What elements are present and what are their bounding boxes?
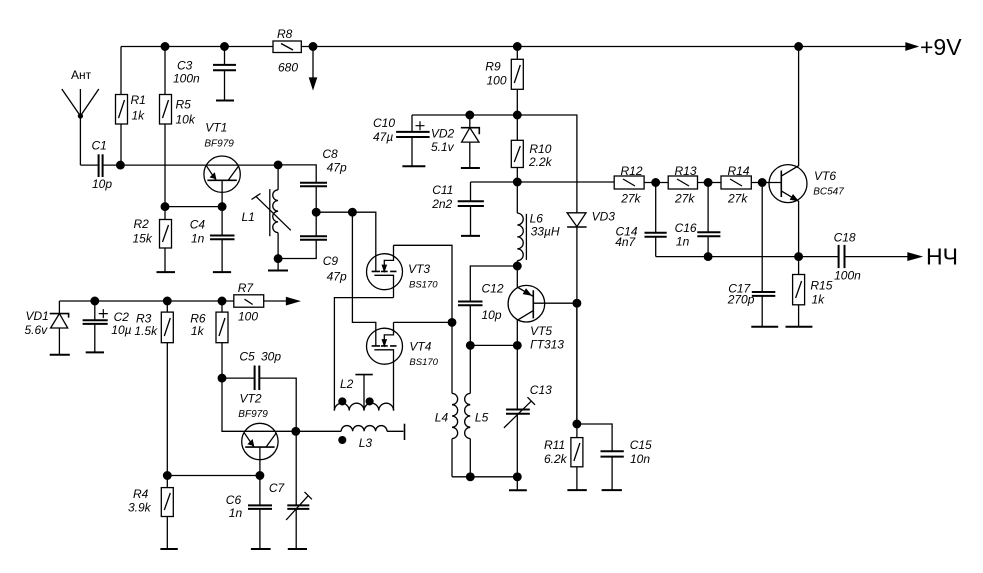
- svg-text:+9V: +9V: [920, 34, 962, 60]
- wire VT3 source to L2 left: [334, 298, 393, 411]
- wire +9V rail left segment: [121, 46, 273, 48]
- svg-text:R2: R2: [134, 217, 150, 231]
- svg-text:1k: 1k: [191, 324, 205, 338]
- node VT6 emitter R15 junction: [795, 253, 803, 261]
- node R6 top junction: [218, 297, 226, 305]
- ground below C17: [751, 326, 778, 328]
- svg-text:1n: 1n: [229, 506, 243, 520]
- wire R6 node to VT2 base: [222, 378, 296, 431]
- svg-text:BF979: BF979: [204, 139, 234, 150]
- transistor VT5 ГТ313: [508, 266, 564, 352]
- svg-text:C18: C18: [834, 231, 856, 245]
- capacitor C10 electrolytic: [373, 115, 430, 166]
- svg-text:10µ: 10µ: [111, 323, 131, 337]
- svg-text:6.2k: 6.2k: [544, 452, 568, 466]
- node R11 C15 junction: [573, 420, 581, 428]
- capacitor C15: [577, 424, 652, 489]
- capacitor C6: [226, 476, 272, 549]
- svg-text:R8: R8: [277, 27, 293, 41]
- svg-text:L6: L6: [530, 212, 544, 226]
- resistor R12: [614, 164, 644, 205]
- wire gate node down to L4: [451, 322, 453, 393]
- svg-text:5.1v: 5.1v: [431, 140, 455, 154]
- wire +9V rail right segment: [301, 46, 917, 48]
- transformer L2: [334, 375, 393, 411]
- node L1 bottom junction: [274, 255, 282, 263]
- svg-text:C9: C9: [323, 254, 339, 268]
- svg-text:27k: 27k: [674, 192, 695, 206]
- ground below C6: [251, 548, 271, 550]
- svg-text:100n: 100n: [834, 269, 861, 283]
- svg-text:L1: L1: [242, 210, 255, 224]
- mosfet VT4 BS170: [367, 322, 439, 410]
- wire R14 to VT6 base: [751, 182, 781, 184]
- svg-text:1n: 1n: [676, 235, 690, 249]
- svg-text:5.6v: 5.6v: [25, 323, 49, 337]
- ground below R15: [786, 326, 813, 328]
- svg-text:680: 680: [278, 61, 298, 75]
- node C2 junction: [91, 297, 99, 305]
- svg-text:10n: 10n: [630, 452, 650, 466]
- node VT5 emitter L5 junction: [514, 342, 522, 350]
- capacitor C14: [615, 183, 667, 257]
- capacitor C12: [458, 281, 504, 345]
- capacitor C3: [173, 47, 236, 100]
- node rail R5 junction: [161, 43, 169, 51]
- node rail VT6 junction: [795, 43, 803, 51]
- svg-text:C12: C12: [482, 281, 504, 295]
- svg-text:2n2: 2n2: [431, 197, 452, 211]
- mosfet VT3 BS170: [367, 245, 439, 297]
- capacitor C5: [222, 350, 296, 432]
- node R13 C16 junction: [704, 179, 712, 187]
- svg-text:33µH: 33µH: [531, 225, 560, 239]
- svg-text:R5: R5: [176, 98, 192, 112]
- wire R13 to R14: [698, 182, 722, 184]
- svg-text:VT3: VT3: [408, 262, 430, 276]
- svg-text:100n: 100n: [173, 72, 200, 86]
- capacitor C9: [278, 236, 347, 283]
- svg-text:C1: C1: [92, 139, 107, 153]
- svg-text:L4: L4: [435, 411, 449, 425]
- svg-text:C5: C5: [239, 350, 255, 364]
- diode VD3: [567, 210, 615, 425]
- svg-text:R13: R13: [675, 164, 697, 178]
- svg-text:100: 100: [238, 310, 258, 324]
- wire VT3 gate loop: [394, 245, 453, 322]
- node C1 R1 junction: [117, 161, 125, 169]
- svg-text:VT1: VT1: [205, 121, 227, 135]
- ground below C13: [509, 477, 527, 490]
- capacitor C11: [431, 182, 484, 235]
- svg-text:C7: C7: [269, 481, 286, 495]
- capacitor C4: [190, 207, 235, 273]
- capacitor C18: [834, 231, 862, 283]
- ground below C2: [86, 351, 104, 353]
- node mosfet drain branch junction: [349, 208, 357, 216]
- svg-text:BS170: BS170: [409, 280, 438, 291]
- node R4 junction: [164, 472, 172, 480]
- resistor R13: [668, 164, 697, 205]
- ground below C4: [213, 271, 231, 273]
- ground below R11: [567, 489, 586, 491]
- wire VT5 base to VD3 line: [533, 302, 577, 304]
- svg-text:BS170: BS170: [409, 357, 438, 368]
- resistor R7: [234, 281, 264, 324]
- resistor R1: [116, 47, 146, 166]
- svg-text:VT6: VT6: [814, 169, 836, 183]
- inductor L1 variable: [242, 165, 291, 259]
- svg-text:C6: C6: [226, 493, 242, 507]
- zener diode VD2: [431, 115, 479, 167]
- ground below C10: [402, 165, 425, 167]
- node VT5 base VD3 junction: [573, 299, 581, 307]
- wire R2 C4 node: [165, 206, 222, 208]
- svg-text:L5: L5: [475, 411, 489, 425]
- ground below C3: [216, 100, 234, 102]
- svg-text:L3: L3: [359, 436, 373, 450]
- resistor R3: [134, 301, 173, 476]
- node L5 bottom junction: [467, 473, 475, 481]
- wire VT4 gate: [394, 321, 453, 323]
- resistor R2: [133, 207, 172, 273]
- svg-text:47µ: 47µ: [373, 130, 393, 144]
- wire branch arrow below R8: [310, 47, 317, 89]
- node rail C3 junction: [221, 43, 229, 51]
- ground below R4: [160, 548, 177, 550]
- svg-text:R15: R15: [810, 279, 832, 293]
- resistor R10: [511, 115, 552, 182]
- wire R7 to arrow: [264, 300, 287, 302]
- node C8 C9 junction: [312, 208, 320, 216]
- svg-text:47p: 47p: [327, 270, 347, 284]
- resistor R11: [544, 303, 583, 489]
- svg-text:1.5k: 1.5k: [134, 324, 158, 338]
- svg-text:R4: R4: [133, 487, 149, 501]
- node R14 C17 junction: [758, 179, 766, 187]
- antenna Ант: [62, 68, 99, 165]
- ground below VD2: [461, 167, 480, 169]
- capacitor C8: [300, 147, 347, 236]
- node VD2 junction: [466, 111, 474, 119]
- svg-text:R9: R9: [485, 59, 501, 73]
- transformer L4: [435, 393, 458, 476]
- svg-text:C4: C4: [190, 218, 206, 232]
- inductor L6: [517, 182, 560, 266]
- wire antenna to C1: [80, 164, 98, 166]
- svg-text:R7: R7: [238, 281, 255, 295]
- wire node under R10: [471, 181, 615, 183]
- svg-text:2.2k: 2.2k: [528, 155, 553, 169]
- capacitor C13 variable: [504, 345, 552, 476]
- svg-text:1k: 1k: [132, 109, 146, 123]
- node rail R8 out junction: [309, 43, 317, 51]
- wire node under R9: [412, 115, 577, 213]
- wire C8 C9 node to VT3 drain: [316, 212, 376, 271]
- node VT2 emitter C6 junction: [256, 472, 264, 480]
- node C12 bottom junction: [467, 342, 475, 350]
- svg-text:C13: C13: [530, 383, 552, 397]
- svg-text:L2: L2: [340, 377, 354, 391]
- svg-text:C11: C11: [432, 183, 453, 197]
- resistor R8: [273, 27, 301, 75]
- svg-text:C15: C15: [630, 438, 652, 452]
- resistor R15: [793, 257, 833, 326]
- node R7 arrow: [287, 298, 299, 305]
- svg-text:R12: R12: [621, 164, 643, 178]
- ground below VD1: [50, 354, 70, 356]
- svg-text:R11: R11: [544, 438, 565, 452]
- wire C1 to VT1 through-line: [103, 164, 278, 166]
- capacitor C1: [92, 139, 113, 192]
- svg-text:НЧ: НЧ: [926, 244, 958, 270]
- svg-text:C3: C3: [177, 59, 193, 73]
- svg-text:1k: 1k: [812, 293, 826, 307]
- svg-text:VT4: VT4: [409, 340, 431, 354]
- wire L4 L5 bottom: [452, 476, 517, 478]
- svg-text:4n7: 4n7: [615, 235, 636, 249]
- svg-text:BC547: BC547: [813, 187, 844, 198]
- svg-text:R1: R1: [131, 93, 146, 107]
- node R12 C14 junction: [652, 179, 660, 187]
- transformer L5: [465, 345, 489, 476]
- svg-text:R10: R10: [529, 142, 551, 156]
- capacitor C7 variable: [269, 431, 312, 548]
- inductor L3: [296, 424, 405, 450]
- node R5 R2 junction: [161, 203, 169, 211]
- transistor VT2 BF979: [238, 392, 278, 476]
- node +9V arrow: [906, 43, 917, 50]
- wire C18 to НЧ arrow: [846, 256, 921, 258]
- svg-text:VD3: VD3: [592, 210, 616, 224]
- capacitor C17: [727, 183, 776, 327]
- svg-text:30p: 30p: [261, 350, 281, 364]
- node L6 VT5 junction: [514, 262, 522, 270]
- svg-text:10p: 10p: [92, 177, 112, 191]
- node VT1 L1 junction: [274, 161, 282, 169]
- svg-text:10k: 10k: [176, 113, 196, 127]
- svg-text:3.9k: 3.9k: [128, 501, 152, 515]
- svg-text:VT2: VT2: [240, 392, 262, 406]
- capacitor C2 electrolytic: [83, 301, 132, 352]
- node R10 L6 junction: [514, 178, 522, 186]
- node НЧ arrow: [908, 253, 921, 260]
- node VT1 base C4 junction: [218, 203, 226, 211]
- svg-text:270p: 270p: [727, 293, 755, 307]
- zener diode VD1: [25, 301, 69, 354]
- wire R4 to VT2 emitter: [167, 475, 260, 477]
- node R6 C5 junction: [218, 374, 226, 382]
- svg-text:15k: 15k: [133, 232, 153, 246]
- svg-text:C16: C16: [675, 221, 697, 235]
- ground below L1: [268, 259, 288, 271]
- wire L6 bottom node to C12: [470, 266, 517, 301]
- svg-text:C10: C10: [373, 116, 395, 130]
- svg-text:C8: C8: [322, 147, 338, 161]
- wire C12 bottom to L5 top: [470, 344, 517, 346]
- resistor R5: [160, 47, 196, 207]
- ground below C15: [602, 489, 622, 491]
- resistor R9: [485, 47, 523, 116]
- svg-text:1n: 1n: [191, 232, 205, 246]
- node R3 top junction: [164, 297, 172, 305]
- svg-text:100: 100: [487, 74, 507, 88]
- svg-text:VD1: VD1: [26, 309, 49, 323]
- wire VD1 C2 R3 R6 top: [59, 300, 233, 302]
- svg-text:27k: 27k: [727, 192, 748, 206]
- ground below C11: [461, 235, 480, 237]
- resistor R4: [128, 476, 173, 549]
- svg-text:VT5: VT5: [530, 324, 552, 338]
- wire R12 to R13: [644, 182, 668, 184]
- svg-text:47p: 47p: [327, 161, 347, 175]
- svg-text:C2: C2: [114, 310, 130, 324]
- ground below R2: [157, 271, 176, 273]
- svg-text:10p: 10p: [482, 308, 502, 322]
- node VT3 gate VT4 gate junction: [448, 319, 456, 327]
- wire C8 node down to VT4 drain: [352, 212, 375, 346]
- node C16 НЧ junction: [704, 253, 712, 261]
- ground below C7: [288, 548, 307, 550]
- svg-text:Ант: Ант: [71, 68, 92, 82]
- resistor R6: [190, 301, 228, 378]
- wire L1 top to C8: [278, 165, 316, 182]
- svg-text:27k: 27k: [620, 192, 641, 206]
- resistor R14: [721, 164, 751, 205]
- svg-text:BF979: BF979: [238, 409, 268, 420]
- transistor VT1 BF979: [204, 121, 240, 207]
- svg-text:ГТ313: ГТ313: [530, 338, 564, 352]
- node VT2 collector junction: [292, 428, 300, 436]
- node C13 bottom junction: [514, 473, 522, 481]
- svg-text:VD2: VD2: [431, 127, 455, 141]
- node R9 R10 junction: [514, 111, 522, 119]
- transistor VT6 BC547: [769, 47, 844, 257]
- node rail R9 junction: [514, 43, 522, 51]
- wire НЧ output line: [656, 256, 838, 258]
- capacitor C16: [675, 183, 721, 257]
- svg-text:R14: R14: [728, 164, 750, 178]
